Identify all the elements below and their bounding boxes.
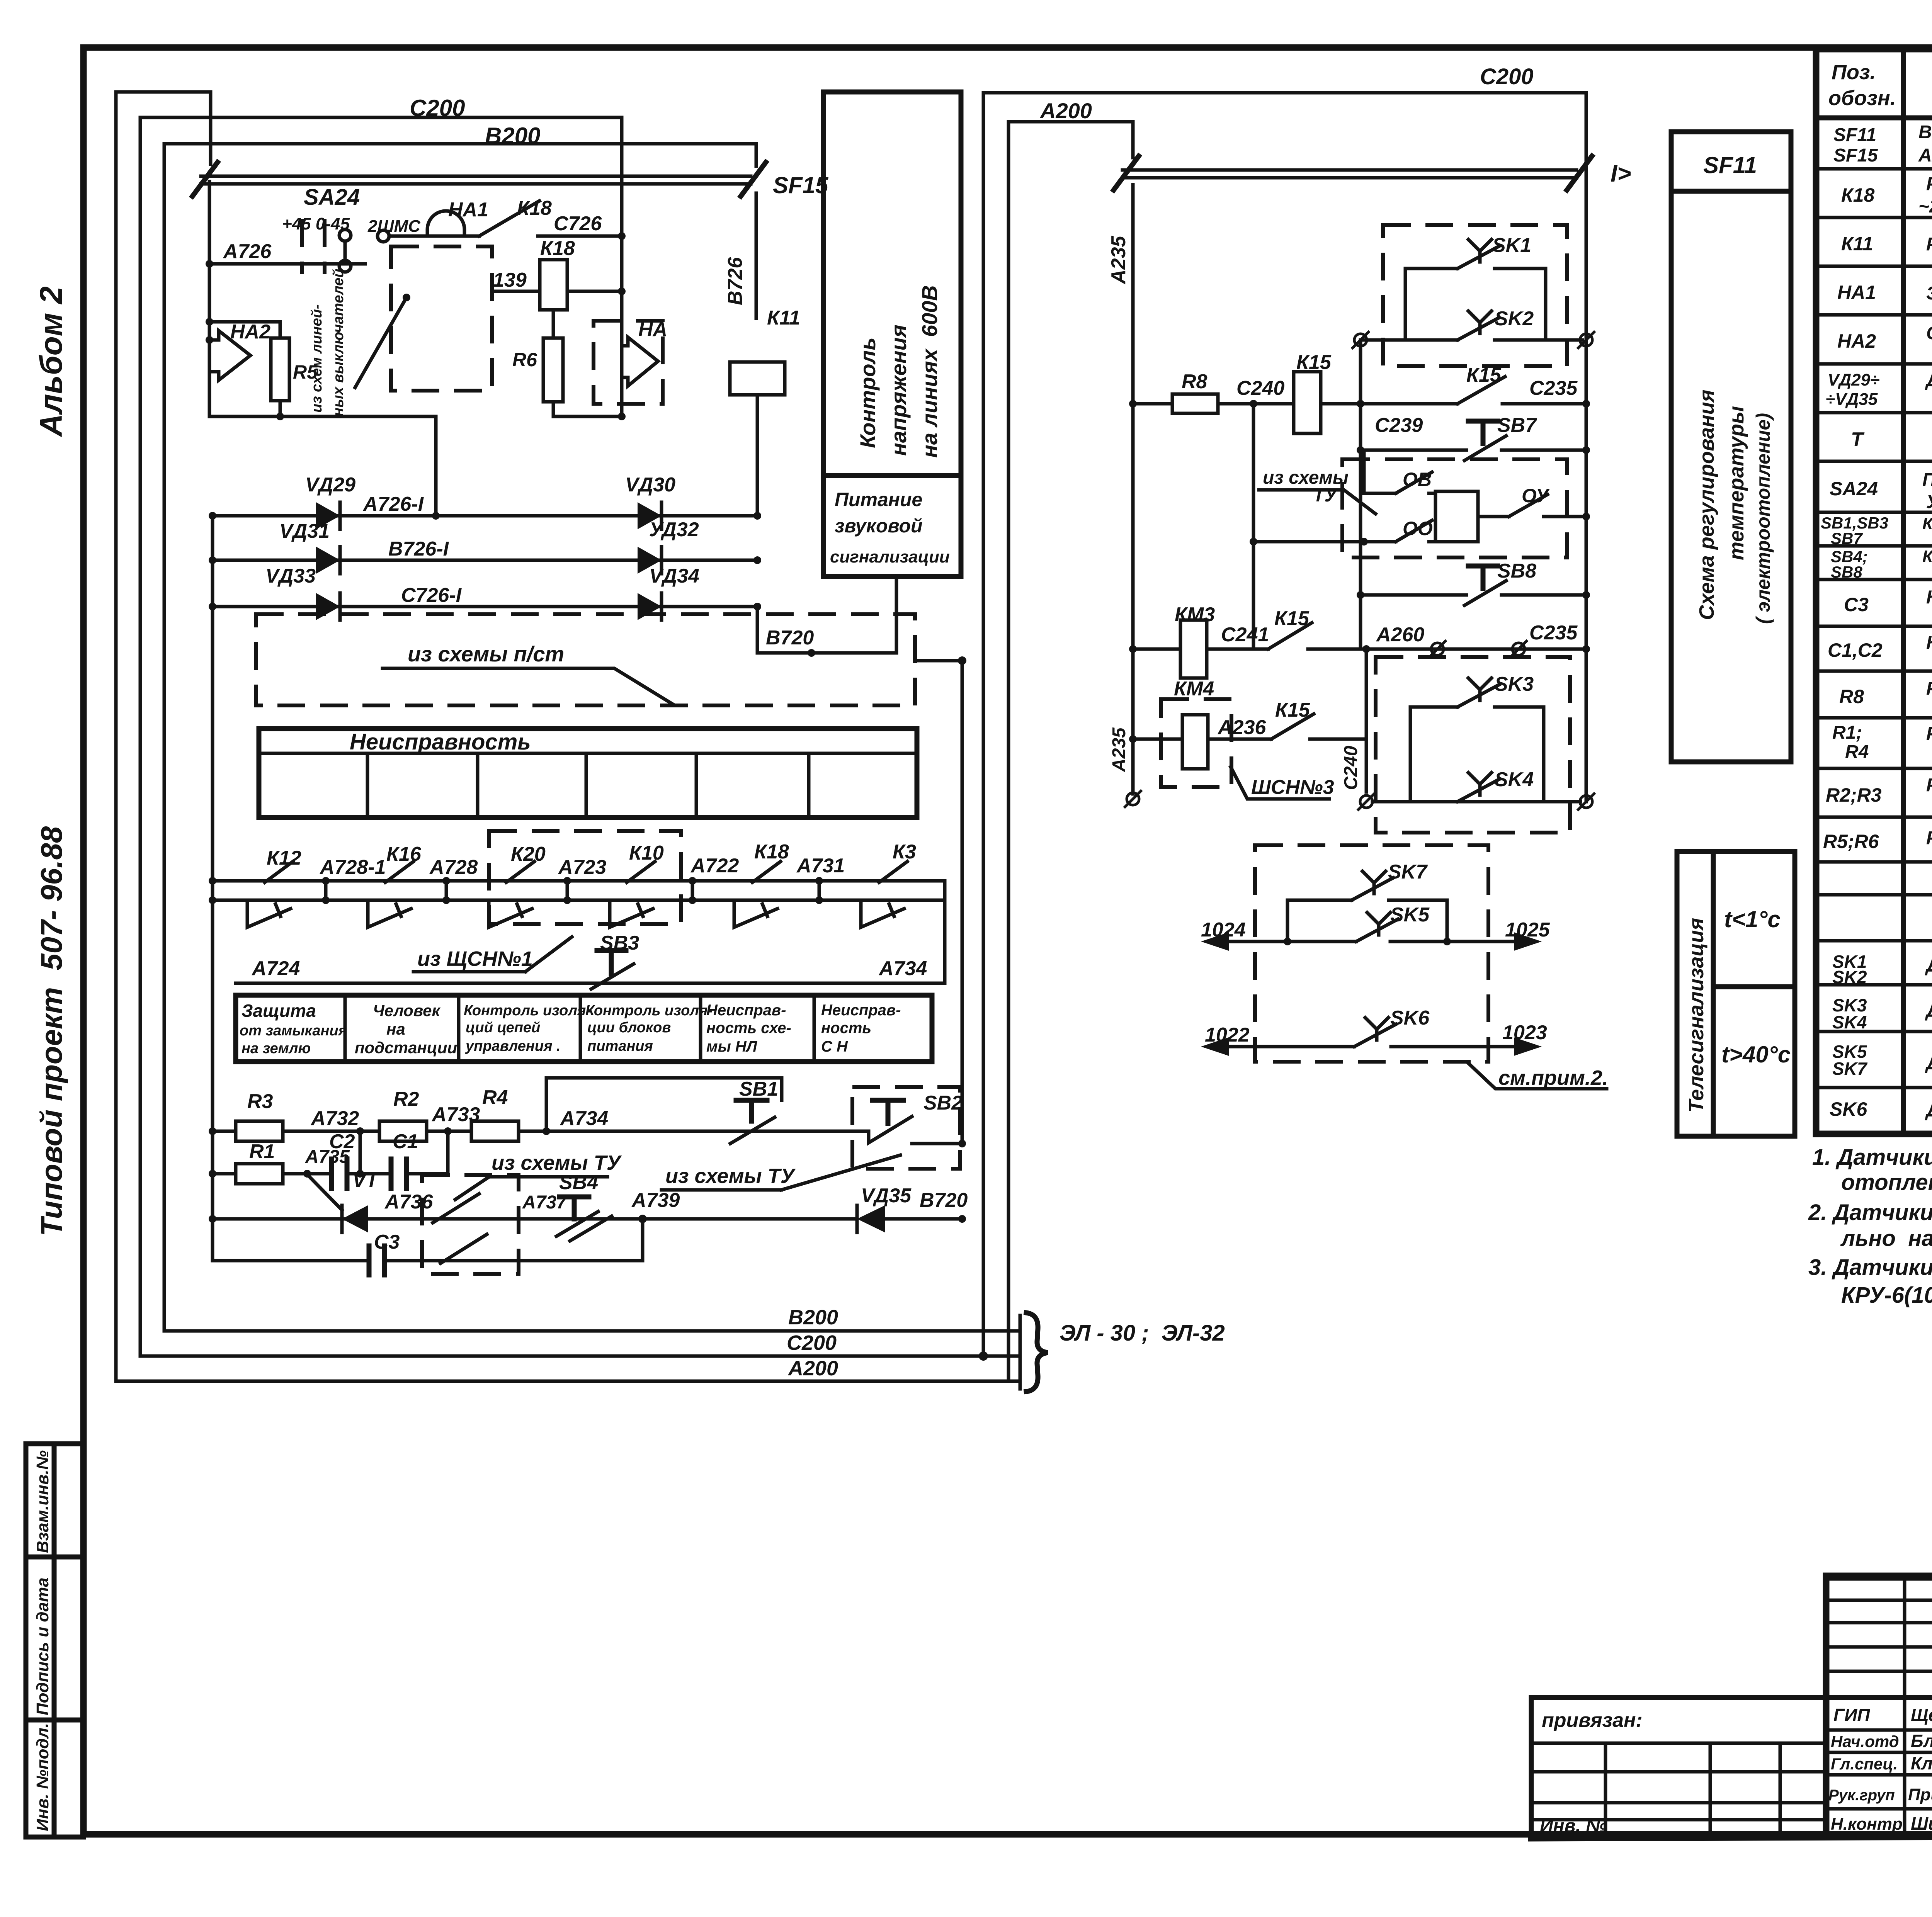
wire: C200 left vertical rail — [139, 117, 142, 1356]
svg-text:VД33: VД33 — [265, 565, 316, 587]
svg-text:SB7: SB7 — [1497, 414, 1537, 437]
node C240 — [1218, 377, 1294, 408]
svg-text:( электроотопление): ( электроотопление) — [1752, 413, 1774, 624]
push-button SB7 — [1357, 414, 1590, 461]
diode VD31 — [279, 520, 340, 574]
svg-text:SF15: SF15 — [1833, 145, 1878, 166]
svg-text:ность схе-: ность схе- — [706, 1020, 791, 1037]
svg-text:Резистор МЛТ2- 20кОм: Резистор МЛТ2- 20кОм — [1926, 775, 1932, 795]
svg-text:К18: К18 — [754, 841, 789, 863]
svg-text:НА1: НА1 — [1837, 282, 1876, 303]
label box: Контроль напряжения на линиях 600В — [823, 92, 961, 576]
wire: cluster bottom rail right — [553, 413, 626, 420]
node C200 bottom bus — [140, 1331, 1003, 1361]
svg-text:R6: R6 — [512, 349, 537, 370]
diode VD29 — [305, 474, 355, 529]
svg-text:ность: ность — [821, 1020, 871, 1037]
wire: feeder from A200 rail to switch — [116, 92, 211, 164]
fault indication table (Неисправность) — [259, 729, 917, 817]
contact OY — [1478, 485, 1590, 520]
svg-text:А260: А260 — [1376, 624, 1424, 646]
svg-text:А724: А724 — [251, 957, 300, 980]
svg-text:SK4: SK4 — [1832, 1012, 1867, 1032]
switch busbar with I> protection — [1114, 156, 1631, 190]
BOM header — [1828, 61, 1932, 110]
svg-text:VД29÷: VД29÷ — [1828, 370, 1879, 389]
bell HA1 — [389, 199, 488, 236]
title block: signature rows — [1828, 1705, 1932, 1834]
svg-text:Т: Т — [1851, 428, 1865, 451]
dashed box around K20/K10 contacts — [489, 831, 681, 924]
node A724 / A734 wire — [236, 957, 945, 983]
node: C200 top bus — [140, 95, 622, 416]
svg-text:С240: С240 — [1341, 746, 1361, 790]
svg-text:ГИП: ГИП — [1833, 1705, 1870, 1725]
svg-text:VT: VT — [352, 1169, 380, 1191]
node C726 — [538, 212, 626, 240]
svg-text:SB1: SB1 — [739, 1078, 778, 1100]
node C241 + contact K15 — [1207, 607, 1590, 653]
svg-text:С235: С235 — [1529, 377, 1578, 399]
resistor R6 — [512, 310, 563, 416]
wire: sensor feed row — [1357, 793, 1595, 811]
svg-text:К18: К18 — [540, 237, 575, 260]
svg-text:SF11: SF11 — [1703, 152, 1757, 178]
resistor R3 — [209, 1090, 283, 1141]
svg-text:Шишло: Шишло — [1911, 1813, 1932, 1834]
wire: contact chain upper rail — [209, 877, 945, 885]
svg-text:КМ4: КМ4 — [1174, 678, 1214, 700]
node B726-I bus — [209, 538, 761, 564]
svg-text:SK6: SK6 — [1830, 1098, 1867, 1120]
temperature sensor SK2 — [1458, 308, 1534, 340]
svg-text:ШСН№3: ШСН№3 — [1251, 776, 1334, 799]
svg-text:А728-1: А728-1 — [319, 856, 386, 879]
svg-text:Н.контр.: Н.контр. — [1831, 1815, 1907, 1834]
svg-text:УП5313-Ж70 ТУ16 - 524.074-7: УП5313-Ж70 ТУ16 - 524.074-75 — [1926, 492, 1932, 512]
svg-text:АП50-3МТ; Iнр= 4А;11Iнр ТУ16-: АП50-3МТ; Iнр= 4А;11Iнр ТУ16-522.066-75 — [1918, 145, 1932, 166]
svg-text:В720: В720 — [766, 627, 814, 649]
svg-text:Защита: Защита — [241, 1001, 316, 1021]
svg-text:1. Датчики SK1, SK2, SK3, SK4: 1. Датчики SK1, SK2, SK3, SK4 устанавлив… — [1812, 1145, 1932, 1170]
svg-text:Кляиин: Кляиин — [1911, 1753, 1932, 1773]
svg-text:Переключатель универсальный: Переключатель универсальный — [1922, 470, 1932, 490]
wire: A235 end connector — [1109, 727, 1142, 808]
svg-text:К10: К10 — [629, 842, 664, 864]
svg-text:льно на крышке шкафа ЩСН №: льно на крышке шкафа ЩСН №3 см.ЭЛ-46. — [1840, 1226, 1932, 1251]
svg-text:Типовой проект 507- 96.88: Типовой проект 507- 96.88 — [34, 826, 68, 1236]
indication legend table — [236, 995, 932, 1062]
node A726-I bus — [209, 493, 761, 520]
svg-text:КРУ-6(10)кВ.: КРУ-6(10)кВ. — [1841, 1283, 1932, 1308]
relay contact K16 — [385, 862, 413, 882]
svg-text:из схем линей-: из схем линей- — [309, 304, 325, 413]
svg-text:Телесигнализация: Телесигнализация — [1685, 918, 1708, 1113]
push-button SB2 (spare, dashed) — [852, 1087, 966, 1169]
svg-text:Щетинский: Щетинский — [1911, 1705, 1932, 1725]
svg-text:Человек: Человек — [373, 1001, 441, 1020]
svg-text:SB4: SB4 — [559, 1171, 598, 1194]
svg-text:Контроль: Контроль — [855, 337, 880, 448]
svg-text:Кнопка управления КЕ-011УЗ ис: Кнопка управления КЕ-011УЗ исп.2 — [1922, 547, 1932, 566]
svg-text:R5;R6: R5;R6 — [1823, 831, 1879, 852]
temperature sensor SK3 — [1410, 673, 1544, 707]
svg-text:К11: К11 — [1841, 233, 1873, 255]
svg-text:С1: С1 — [393, 1130, 418, 1153]
wire: 1024/1025 row with loop — [1201, 900, 1550, 951]
resistor R2 — [379, 1088, 427, 1141]
node C235 connector — [1510, 622, 1578, 658]
svg-text:Инв. №подл.: Инв. №подл. — [33, 1723, 52, 1831]
svg-text:R1: R1 — [249, 1140, 275, 1163]
NC contact 2 — [368, 900, 411, 927]
svg-text:из схемы п/ст: из схемы п/ст — [408, 642, 564, 666]
NC contact 5 — [734, 900, 777, 927]
svg-text:t>40°c: t>40°c — [1721, 1042, 1791, 1067]
svg-text:С2: С2 — [329, 1130, 355, 1153]
svg-text:А726-I: А726-I — [362, 493, 424, 515]
svg-text:мы НЛ: мы НЛ — [706, 1038, 758, 1055]
svg-text:С Н: С Н — [821, 1038, 848, 1055]
svg-text:2. Датчики SK2,SK4,SK5, SK6 ус: 2. Датчики SK2,SK4,SK5, SK6 устанавливаю… — [1808, 1200, 1932, 1225]
svg-text:на: на — [386, 1020, 405, 1038]
svg-text:Контроль изоля-: Контроль изоля- — [585, 1003, 713, 1019]
wire SB1 feeder — [546, 1078, 782, 1131]
node A200 bottom bus — [116, 1357, 1009, 1381]
svg-text:В726-I: В726-I — [388, 538, 449, 560]
relay coil K15 — [1294, 351, 1364, 433]
svg-text:температуры: температуры — [1725, 406, 1748, 560]
title block — [1531, 1576, 1932, 1838]
wire: left rail down from diode buses — [211, 516, 214, 1261]
svg-text:напряжения: напряжения — [886, 325, 911, 456]
svg-text:А734: А734 — [560, 1107, 608, 1130]
svg-text:3. Датчики SK1,SK3,SK7 устанав: 3. Датчики SK1,SK3,SK7 устанавливаются в… — [1808, 1255, 1932, 1280]
left margin stamp box — [26, 1444, 83, 1837]
svg-text:Резистор МЛТ2 - 1кОм: Резистор МЛТ2 - 1кОм — [1926, 724, 1932, 744]
svg-text:А734: А734 — [878, 957, 927, 980]
BOM table grid — [1816, 49, 1932, 1134]
note: см.прим.2. — [1468, 1063, 1608, 1089]
svg-text:обозн.: обозн. — [1828, 87, 1896, 110]
node A739 — [631, 1189, 680, 1223]
notes — [1808, 1145, 1932, 1308]
note: из схемы п/ст — [383, 642, 672, 704]
wire C240 rail — [1252, 404, 1255, 649]
wire: 1022/1023 row — [1201, 1021, 1547, 1056]
svg-text:Подпись и дата: Подпись и дата — [33, 1577, 52, 1715]
NC contact 3 — [489, 900, 532, 927]
wire: A235 rail — [1107, 185, 1133, 739]
temperature sensor SK1 — [1405, 234, 1546, 269]
svg-text:SA24: SA24 — [304, 185, 360, 210]
svg-text:SB2: SB2 — [923, 1092, 963, 1114]
svg-text:управления .: управления . — [465, 1038, 561, 1054]
contact OO — [1253, 518, 1435, 546]
svg-text:подстанции: подстанции — [355, 1038, 457, 1057]
svg-text:SB8: SB8 — [1497, 560, 1536, 582]
horn HA (dashed, spare) — [594, 318, 667, 404]
svg-text:Поз.: Поз. — [1832, 61, 1876, 84]
svg-text:SB7: SB7 — [1831, 529, 1863, 547]
diode VD30 — [625, 474, 675, 529]
svg-text:см.прим.2.: см.прим.2. — [1498, 1066, 1608, 1089]
dashed box: sensors SK3 SK4 — [1376, 657, 1570, 833]
dashed box: from substation scheme — [256, 614, 966, 705]
svg-text:К20: К20 — [511, 843, 546, 865]
BOM rows: designators — [1821, 125, 1888, 1120]
svg-text:К12: К12 — [267, 847, 301, 869]
switch SF15 busbar (double line) — [192, 162, 829, 318]
svg-text:сигнализации: сигнализации — [830, 547, 950, 566]
svg-text:из ЩСН№1: из ЩСН№1 — [417, 947, 533, 970]
svg-text:ЭЛ - 30 ; ЭЛ-32: ЭЛ - 30 ; ЭЛ-32 — [1060, 1320, 1225, 1346]
svg-text:VД29: VД29 — [305, 474, 355, 496]
svg-text:Реле тока РТ40/2 У4 ТУ16 -: Реле тока РТ40/2 У4 ТУ16 -523.468-78 — [1926, 234, 1932, 255]
resistor R5 — [206, 318, 318, 416]
node A732 — [283, 1107, 379, 1135]
svg-text:R8: R8 — [1182, 370, 1207, 393]
svg-text:VД31: VД31 — [279, 520, 330, 542]
svg-text:К3: К3 — [893, 841, 916, 863]
svg-text:~220В; 50Гц ТУ16 - 523.483-: ~220В; 50Гц ТУ16 - 523.483-78Е — [1918, 196, 1932, 217]
relay contact chain labels — [267, 841, 916, 879]
resistor R8 — [1129, 370, 1218, 413]
svg-text:Привезенцева: Привезенцева — [1908, 1785, 1932, 1804]
relay contact K3 — [879, 862, 907, 882]
svg-text:А736: А736 — [384, 1191, 433, 1213]
svg-text:питания: питания — [587, 1038, 653, 1054]
svg-text:от замыкания: от замыкания — [240, 1023, 347, 1039]
relay contact K18a — [752, 862, 781, 882]
svg-text:SK5: SK5 — [1390, 904, 1430, 926]
svg-text:R2;R3: R2;R3 — [1826, 784, 1882, 806]
BOM rows: names — [1918, 122, 1932, 1121]
wire from cluster bottom to diode bus — [434, 416, 438, 516]
contact OB — [1364, 450, 1435, 493]
NC contact 1 — [247, 900, 291, 927]
svg-text:В726: В726 — [724, 257, 747, 305]
node A260 connector — [1376, 624, 1446, 658]
wire: cluster bottom rail — [209, 413, 436, 420]
wire: A200 left vertical rail — [114, 92, 118, 1381]
dashed relay box (middle) — [391, 246, 492, 391]
svg-text:на землю: на землю — [241, 1040, 311, 1057]
capacitor C2 — [329, 1130, 391, 1188]
NC contact 4 — [610, 900, 653, 927]
svg-text:А200: А200 — [787, 1357, 838, 1380]
svg-text:НА1: НА1 — [448, 199, 488, 221]
svg-text:А200: А200 — [1039, 99, 1092, 123]
svg-text:отоплении.: отоплении. — [1841, 1170, 1932, 1195]
svg-text:SA24: SA24 — [1830, 478, 1878, 500]
note: из схемы ТУ (left) — [455, 1151, 622, 1200]
svg-text:VД34: VД34 — [649, 565, 699, 587]
svg-text:из схемы ТУ: из схемы ТУ — [492, 1151, 622, 1174]
svg-text:Звонок 3В,220В ГОСТ 7220-80: Звонок 3В,220В ГОСТ 7220-80 — [1926, 283, 1932, 304]
svg-text:ций цепей: ций цепей — [466, 1020, 540, 1036]
svg-text:А739: А739 — [631, 1189, 680, 1212]
svg-text:В200: В200 — [788, 1306, 838, 1329]
node A733 — [427, 1103, 480, 1135]
svg-text:2ШМС: 2ШМС — [367, 217, 421, 236]
svg-text:К18: К18 — [1841, 184, 1875, 206]
diode VD34 — [638, 565, 699, 620]
note: из схемы ТУ (right) — [662, 1155, 900, 1190]
svg-text:А728: А728 — [429, 856, 478, 879]
svg-text:Питание: Питание — [835, 489, 922, 510]
wire: lower control row — [213, 1217, 857, 1221]
svg-text:Блохин: Блохин — [1911, 1731, 1932, 1751]
svg-text:С1,С2: С1,С2 — [1828, 639, 1883, 661]
svg-text:R2: R2 — [393, 1088, 419, 1110]
svg-text:К16: К16 — [386, 843, 422, 865]
svg-text:К18: К18 — [517, 197, 552, 219]
svg-text:SF15: SF15 — [773, 172, 829, 198]
wire: SK3/SK4 loop — [1410, 707, 1544, 802]
node B200 bottom bus — [164, 1306, 1003, 1331]
relay box inside — [1435, 491, 1478, 542]
svg-text:А235: А235 — [1109, 727, 1129, 772]
resistor R1 — [209, 1140, 332, 1184]
svg-text:А732: А732 — [310, 1107, 359, 1130]
svg-text:Конденсатор МБМ-500-0,25: Конденсатор МБМ-500-0,25 — [1926, 587, 1932, 608]
svg-text:Неисправность: Неисправность — [350, 729, 531, 755]
svg-text:Контроль изоля-: Контроль изоля- — [464, 1003, 591, 1019]
node A200 feeder (right section) — [1009, 99, 1133, 1381]
dashed box TU switches — [422, 1175, 519, 1274]
svg-text:SB8: SB8 — [1831, 563, 1862, 581]
relay coil K18 — [492, 237, 626, 310]
node C200 top bus (right section) — [983, 64, 1586, 1356]
svg-text:А722: А722 — [690, 855, 739, 877]
svg-text:ции блоков: ции блоков — [587, 1020, 671, 1036]
svg-text:А236: А236 — [1217, 716, 1266, 739]
svg-text:С726: С726 — [554, 212, 602, 235]
svg-text:R3: R3 — [247, 1090, 273, 1113]
svg-text:1023: 1023 — [1502, 1021, 1547, 1044]
svg-text:R1;: R1; — [1832, 722, 1862, 743]
svg-text:139: 139 — [493, 269, 527, 291]
svg-text:÷VД35: ÷VД35 — [1826, 390, 1878, 409]
svg-text:Рук.груп: Рук.груп — [1828, 1787, 1895, 1804]
wire: contact chain lower rail — [209, 877, 945, 904]
svg-text:R5: R5 — [293, 361, 318, 383]
wire: right rail of left schematic — [961, 661, 964, 1144]
svg-text:t<1°c: t<1°c — [1724, 906, 1781, 932]
title block: left extension (привязан) — [1531, 1698, 1826, 1836]
svg-text:НА2: НА2 — [230, 321, 270, 343]
push-button SB4 — [522, 1171, 612, 1241]
wire: right rail of contact chain — [943, 881, 947, 983]
svg-text:А235: А235 — [1107, 236, 1130, 285]
node A236 + contact K15 — [1129, 699, 1366, 743]
dashed box: sensors SK1 SK2 — [1383, 225, 1567, 366]
wire C240 drop — [1341, 649, 1366, 792]
svg-text:НА2: НА2 — [1837, 330, 1876, 352]
switch SA24 — [282, 185, 421, 274]
relay contact K15 — [1361, 364, 1590, 408]
svg-text:С240: С240 — [1236, 377, 1284, 399]
svg-text:SF11: SF11 — [1833, 125, 1876, 145]
svg-text:ных выключателей: ных выключателей — [330, 269, 347, 416]
NC contact 6 — [861, 900, 904, 927]
svg-text:Инв. №: Инв. № — [1540, 1816, 1607, 1836]
wire: C200 right rail — [1585, 93, 1588, 802]
dashed box: OB OO OY — [1342, 459, 1567, 557]
bus terminator brace to ЭЛ-30; ЭЛ-32 — [1003, 1313, 1225, 1392]
svg-text:Схема регулирования: Схема регулирования — [1695, 390, 1718, 620]
svg-text:С200: С200 — [1480, 64, 1534, 89]
svg-text:SK7: SK7 — [1832, 1059, 1868, 1079]
note: ШСН N3 — [1231, 767, 1334, 799]
svg-text:А723: А723 — [558, 856, 606, 879]
label box: Питание звуковой сигнализации — [830, 489, 950, 566]
svg-text:R8: R8 — [1839, 686, 1864, 707]
svg-text:К11: К11 — [767, 307, 800, 329]
capacitor C3 — [213, 1219, 643, 1275]
svg-text:VД35: VД35 — [861, 1185, 912, 1207]
thyristor VT — [303, 1169, 380, 1232]
push-button SB8 — [1357, 560, 1590, 605]
wire: junction rail — [1359, 340, 1362, 649]
relay coil K11 — [724, 257, 800, 516]
dashed box: contactor KM4 — [1161, 678, 1231, 787]
svg-text:С3: С3 — [1844, 594, 1869, 615]
svg-text:Гл.спец.: Гл.спец. — [1831, 1755, 1898, 1773]
node A726 wire — [206, 240, 365, 268]
svg-text:Сирена СС-1 , ~220В: Сирена СС-1 , ~220В — [1926, 323, 1932, 343]
node C726-I bus — [209, 584, 761, 610]
svg-text:А731: А731 — [796, 855, 845, 877]
svg-text:Взам.инв.№: Взам.инв.№ — [33, 1450, 52, 1553]
capacitor C1 — [391, 1130, 448, 1188]
diode VD33 — [265, 565, 340, 620]
horn HA2 — [206, 321, 270, 380]
svg-text:Резистор ПЭВ-25 - 2,4 кОм: Резистор ПЭВ-25 - 2,4 кОм ±10% — [1926, 678, 1932, 699]
svg-text:Конденсатор МБМ-160-0.1: Конденсатор МБМ-160-0.1 — [1926, 633, 1932, 653]
relay contact K10 — [627, 862, 655, 882]
relay contact K12 — [265, 862, 293, 882]
wire: SK1/SK2 loop — [1364, 269, 1582, 340]
note: из ЩСН N1 — [413, 937, 572, 972]
wire: B200 left vertical rail — [163, 144, 166, 1331]
node B720 wire to sound supply box — [757, 578, 896, 657]
svg-text:SK2: SK2 — [1832, 967, 1867, 987]
svg-text:Альбом 2: Альбом 2 — [34, 286, 69, 437]
svg-text:С239: С239 — [1375, 414, 1423, 437]
svg-text:Выключатель автоматический: Выключатель автоматический — [1918, 122, 1932, 143]
diode VD32 — [638, 518, 699, 574]
label box: SF11 / Схема регулирования температуры — [1671, 132, 1791, 762]
svg-text:Неисправ-: Неисправ- — [821, 1002, 901, 1019]
svg-text:НА: НА — [638, 318, 667, 341]
svg-text:Нач.отд: Нач.отд — [1831, 1732, 1899, 1750]
svg-text:из схемы ТУ: из схемы ТУ — [665, 1164, 796, 1188]
resistor R4 — [471, 1086, 737, 1141]
node: B200 top bus — [164, 123, 756, 166]
wire: left rail of sound-alarm cluster — [208, 182, 211, 416]
svg-text:I>: I> — [1611, 160, 1631, 187]
svg-text:С241: С241 — [1221, 624, 1269, 646]
svg-text:А726: А726 — [223, 240, 272, 263]
svg-text:Кнопка управления КЕ-011УЗ ис: Кнопка управления КЕ-011УЗ исп.2. — [1922, 514, 1932, 533]
temperature sensor SK4 — [1458, 768, 1534, 802]
relay contact K20 — [506, 862, 534, 882]
svg-text:В720: В720 — [920, 1189, 968, 1212]
svg-text:С726-I: С726-I — [401, 584, 462, 607]
svg-text:SK7: SK7 — [1388, 861, 1428, 883]
